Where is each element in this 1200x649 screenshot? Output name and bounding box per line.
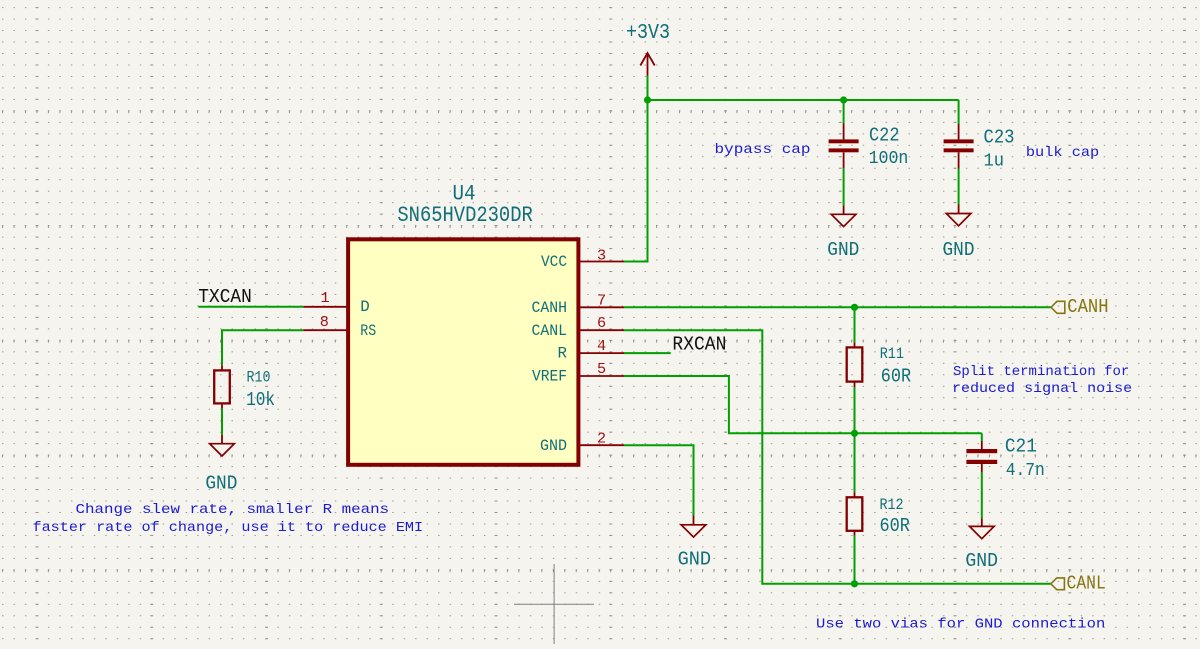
- hierarchical label CANH: [1051, 296, 1109, 318]
- svg-text:1: 1: [320, 289, 329, 307]
- svg-text:60R: 60R: [880, 515, 911, 537]
- junction at +3V3: [644, 96, 651, 103]
- ground C22: [827, 206, 859, 262]
- svg-text:4.7n: 4.7n: [1006, 461, 1045, 481]
- pin 1 D: [303, 289, 370, 316]
- svg-text:2: 2: [597, 429, 606, 447]
- wire C23 to GND: [958, 169, 960, 205]
- svg-text:VREF: VREF: [532, 368, 567, 386]
- wire junction to R12: [854, 433, 856, 492]
- wire R pin RXCAN: [624, 352, 671, 354]
- svg-text:GND: GND: [678, 548, 712, 570]
- crosshair: [514, 564, 594, 644]
- svg-text:+3V3: +3V3: [626, 21, 670, 45]
- capacitor C23: [944, 100, 1015, 172]
- junction CANH R11: [851, 304, 858, 311]
- pin 2 GND: [540, 429, 624, 455]
- svg-text:CANL: CANL: [532, 322, 568, 340]
- capacitor C22: [829, 100, 909, 169]
- svg-text:CANH: CANH: [1067, 296, 1108, 318]
- junction R12 CANL: [851, 580, 858, 587]
- ground R10: [205, 435, 237, 495]
- pin 6 CANL: [532, 314, 625, 340]
- power +3V3: [626, 21, 670, 76]
- ground C23: [943, 205, 975, 262]
- wire R10 to GND: [221, 408, 223, 434]
- svg-text:SN65HVD230DR: SN65HVD230DR: [397, 202, 532, 228]
- svg-text:60R: 60R: [881, 366, 912, 388]
- wire C21 to GND: [981, 472, 983, 519]
- wire CANL: [624, 330, 1051, 584]
- svg-text:GND: GND: [965, 550, 998, 572]
- svg-text:8: 8: [320, 313, 329, 331]
- wire pin 2 to GND: [624, 445, 694, 515]
- pin 3 VCC: [541, 246, 624, 271]
- wire power rail: [648, 99, 959, 101]
- wire RS to R10: [222, 330, 303, 365]
- pin 8 RS: [303, 313, 376, 340]
- svg-text:4: 4: [597, 337, 606, 355]
- wire C22 to GND: [843, 168, 845, 206]
- svg-text:reduced signal noise: reduced signal noise: [952, 381, 1132, 397]
- wire VREF to center tap: [624, 376, 982, 433]
- svg-text:7: 7: [597, 291, 606, 309]
- svg-text:GND: GND: [943, 239, 975, 261]
- ground C21: [965, 519, 998, 572]
- pin 4 R: [558, 337, 624, 363]
- svg-text:VCC: VCC: [541, 253, 567, 271]
- svg-text:3: 3: [597, 246, 606, 264]
- svg-text:TXCAN: TXCAN: [198, 286, 252, 308]
- wire TXCAN to pin 1: [198, 306, 303, 308]
- svg-text:Split termination for: Split termination for: [953, 364, 1129, 380]
- resistor R11: [847, 342, 912, 387]
- svg-text:D: D: [360, 298, 369, 316]
- junction at C22: [840, 96, 847, 103]
- svg-text:C23: C23: [984, 126, 1015, 148]
- svg-text:RXCAN: RXCAN: [672, 333, 726, 355]
- svg-text:10k: 10k: [246, 389, 275, 411]
- svg-text:5: 5: [597, 360, 606, 378]
- svg-text:CANH: CANH: [532, 299, 568, 317]
- svg-text:GND: GND: [205, 473, 237, 495]
- ic U4: [348, 181, 578, 465]
- ground pin 2: [678, 516, 712, 571]
- svg-text:C21: C21: [1005, 436, 1037, 458]
- hierarchical label CANL: [1051, 572, 1106, 594]
- svg-text:C22: C22: [869, 124, 900, 146]
- wire +3V3 to VCC pin 3: [624, 76, 648, 262]
- svg-text:R10: R10: [247, 369, 271, 387]
- svg-text:RS: RS: [360, 322, 376, 340]
- svg-text:100n: 100n: [869, 149, 909, 169]
- resistor R10: [214, 365, 275, 411]
- resistor R12: [847, 492, 910, 537]
- pin 7 CANH: [532, 291, 625, 317]
- junction VREF R11 R12: [851, 430, 858, 437]
- wire CANH to R11: [854, 307, 856, 342]
- svg-text:R11: R11: [880, 345, 904, 363]
- svg-text:bulk cap: bulk cap: [1026, 145, 1099, 161]
- svg-text:R: R: [558, 345, 568, 363]
- svg-text:GND: GND: [540, 437, 567, 455]
- svg-text:Use two vias for GND connectio: Use two vias for GND connection: [816, 616, 1105, 632]
- pin 5 VREF: [532, 360, 624, 386]
- svg-text:faster rate of change, use it: faster rate of change, use it to reduce …: [33, 520, 424, 536]
- svg-text:R12: R12: [880, 496, 904, 514]
- svg-text:1u: 1u: [984, 152, 1005, 172]
- svg-text:bypass cap: bypass cap: [715, 142, 811, 158]
- capacitor C21: [966, 433, 1044, 481]
- svg-text:6: 6: [597, 314, 606, 332]
- wire CANH: [624, 306, 1051, 308]
- svg-text:CANL: CANL: [1067, 572, 1106, 594]
- wire R11 to junction: [854, 387, 856, 433]
- svg-text:Change slew rate, smaller R me: Change slew rate, smaller R means: [76, 502, 390, 518]
- wire R12 to CANL: [854, 536, 856, 584]
- svg-text:GND: GND: [827, 239, 859, 261]
